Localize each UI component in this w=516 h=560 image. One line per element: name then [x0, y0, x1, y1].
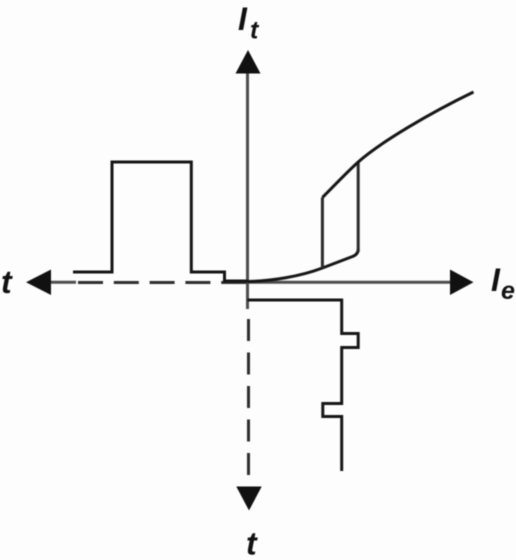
horizontal axis right solid shaft (I_e axis) — [248, 281, 453, 284]
horizontal axis left dashed part (t axis left) — [78, 281, 247, 284]
svg-text:t: t — [1, 264, 13, 300]
transfer characteristic lower branch — [248, 249, 359, 282]
svg-text:e: e — [501, 277, 515, 305]
svg-text:I: I — [238, 1, 248, 37]
input pulse waveform (left, vs t) — [73, 162, 248, 281]
horizontal axis right arrowhead — [450, 270, 474, 296]
transfer characteristic upper branch curve — [322, 92, 473, 198]
hysteresis right vertical jump — [357, 162, 360, 252]
vertical axis down arrowhead — [236, 487, 261, 511]
horizontal axis left arrowhead — [26, 270, 51, 296]
svg-text:t: t — [250, 17, 260, 45]
output waveform (bottom right, vs t) — [248, 300, 359, 471]
svg-text:t: t — [246, 526, 258, 560]
vertical axis dashed lower part (t axis down) — [247, 319, 250, 475]
vertical axis up arrowhead — [236, 50, 261, 74]
hysteresis left vertical jump — [321, 198, 324, 269]
svg-text:I: I — [491, 262, 501, 298]
vertical axis solid shaft (I_t axis) — [246, 73, 249, 309]
horizontal axis left solid shaft near arrow — [50, 281, 76, 284]
